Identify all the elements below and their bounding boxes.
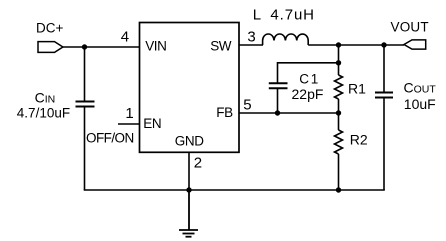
pin 2 wire GND [188,152,190,190]
wire C1 branch [278,63,339,83]
junction FB-C1 [275,110,280,115]
wire R1 to FB node [338,99,340,113]
svg-text:SW: SW [210,38,232,53]
svg-text:R2: R2 [350,131,368,147]
svg-text:VOUT: VOUT [391,20,429,35]
svg-text:1: 1 [311,72,319,87]
svg-text:R1: R1 [348,81,366,97]
svg-text:L: L [253,7,261,24]
resistor R1 [335,75,343,99]
junction input node [82,44,87,49]
capacitor C1 [269,83,288,113]
junction C1 tee [336,60,341,65]
ground symbol [179,190,198,237]
svg-text:VIN: VIN [145,38,166,53]
wire VOUT node down to R1 [338,45,340,75]
junction rail-GND [186,187,191,192]
svg-text:4: 4 [121,29,129,46]
wire SW to inductor [239,44,263,46]
svg-text:OFF/ON: OFF/ON [86,131,134,146]
terminal DC+ [38,42,63,53]
wire FB node to R2 [338,113,340,130]
junction node L-R1 [336,42,341,47]
capacitor COUT [375,45,393,190]
svg-text:10uF: 10uF [404,96,436,112]
resistor R2 [335,130,343,154]
wire DC+ to VIN [63,46,140,48]
pin 1 stub (EN) [118,123,140,125]
svg-text:FB: FB [216,105,233,120]
svg-text:1: 1 [125,105,133,122]
junction FB divider node [336,110,341,115]
junction rail-R2 [336,187,341,192]
svg-text:4.7/10uF: 4.7/10uF [17,105,70,120]
capacitor C_IN [76,47,95,190]
wire R2 to ground rail [338,154,340,190]
svg-text:22pF: 22pF [292,86,324,102]
IC U1 [140,23,240,153]
wire FB [239,112,339,114]
svg-text:EN: EN [143,116,161,131]
svg-text:3: 3 [247,29,255,46]
terminal VOUT [404,40,426,49]
svg-text:DC+: DC+ [36,21,63,36]
svg-text:GND: GND [175,134,204,149]
svg-text:C: C [299,72,309,87]
junction node COUT [381,42,386,47]
svg-text:2: 2 [194,155,202,172]
inductor L [263,34,309,45]
bottom ground rail [84,189,385,191]
wire inductor to VOUT [308,44,404,46]
svg-text:4.7uH: 4.7uH [270,7,315,24]
svg-text:5: 5 [243,96,251,113]
